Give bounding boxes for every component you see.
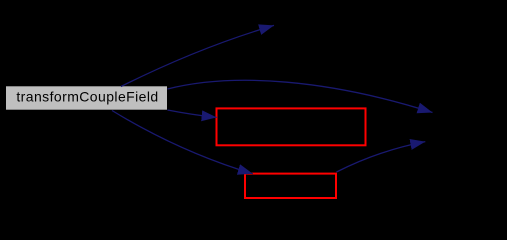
- edge: transformCoupleField -> right node (invisible), long arc over red box 1: [168, 80, 433, 112]
- edge: transformCoupleField -> top node (invisible): [121, 25, 274, 86]
- node: red box 1 (truncated callee, red border): [217, 108, 366, 145]
- edge: transformCoupleField -> red box 2: [112, 111, 253, 174]
- svg-text:transformCoupleField: transformCoupleField: [16, 89, 158, 105]
- edge: transformCoupleField -> red box 1: [168, 110, 217, 117]
- node: red box 2 (truncated callee, red border): [245, 174, 336, 198]
- edge: red box 2 -> right node (invisible): [337, 142, 426, 172]
- node: transformCoupleField (current node, grey filled box): [6, 86, 167, 109]
